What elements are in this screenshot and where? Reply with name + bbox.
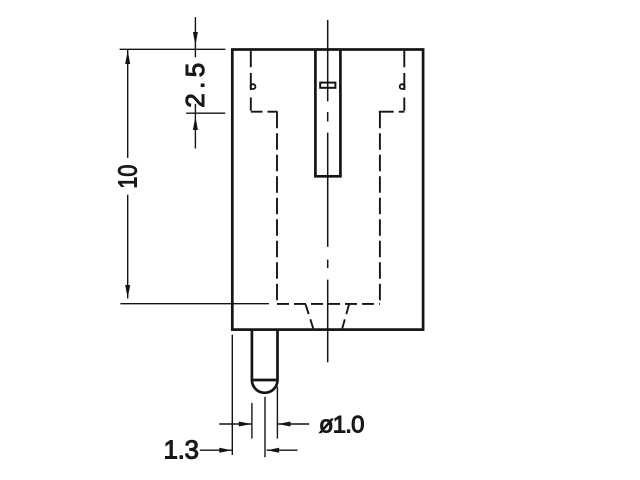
- hidden funnel right slant: [342, 305, 349, 329]
- dim 10 arrow up: [125, 51, 130, 65]
- svg-text:1.3: 1.3: [164, 434, 200, 464]
- pin right edge: [276, 330, 279, 380]
- dim dia1.0 arrow left-pointing: [278, 422, 291, 427]
- dim dia1.0 leader left: [219, 423, 251, 425]
- dim 10 extension line top: [120, 48, 226, 50]
- dim 1.3 arrow left-pointing: [267, 448, 280, 453]
- hidden cavity right step: [379, 111, 405, 113]
- small circle detail right: [400, 84, 405, 89]
- hidden cavity left step: [251, 111, 278, 113]
- pin left edge: [251, 330, 254, 380]
- center line: [327, 20, 329, 362]
- pin chord: [252, 379, 278, 382]
- slot right edge: [339, 50, 342, 177]
- body outline: [232, 50, 423, 330]
- hidden cavity left outer wall: [250, 51, 252, 111]
- slot left edge: [314, 50, 317, 177]
- svg-text:10: 10: [112, 165, 142, 189]
- dim 2.5 arrow down: [193, 32, 198, 46]
- svg-text:ø1.0: ø1.0: [319, 411, 364, 438]
- dim 1.3 extension line right (pin center): [264, 397, 266, 458]
- dim 10 extension line bottom: [120, 303, 269, 305]
- dim 2.5 arrow up: [193, 117, 198, 131]
- slot bottom edge: [314, 175, 342, 178]
- dim 1.3 arrow right-pointing: [219, 448, 232, 453]
- dim dia1.0 extension line left: [251, 403, 253, 439]
- dim 1.3 extension line left (body edge): [231, 335, 233, 455]
- dim 2.5 dimension line upper: [194, 17, 196, 57]
- hidden cavity left inner wall: [276, 112, 278, 304]
- hidden cavity right outer wall: [403, 51, 405, 111]
- hidden cavity bottom: [277, 303, 380, 305]
- dim 1.3 leader left: [200, 449, 232, 451]
- hidden funnel left slant: [306, 305, 314, 329]
- dim 2.5 extension line bottom: [186, 112, 225, 114]
- dim 2.5 dimension line lower: [194, 104, 196, 149]
- dim dia1.0 leader right: [278, 423, 309, 425]
- small circle detail left: [251, 84, 256, 89]
- pin dome arc: [252, 380, 278, 393]
- dim dia1.0 arrow right-pointing: [239, 422, 252, 427]
- dim 1.3 leader right: [267, 449, 298, 451]
- hidden cavity right inner wall: [379, 112, 381, 304]
- svg-text:2.5: 2.5: [180, 63, 210, 108]
- dim dia1.0 extension line right: [276, 387, 278, 439]
- dim 10 dimension line: [127, 49, 129, 158]
- dim 10 arrow down: [125, 285, 130, 299]
- small rectangle feature: [320, 83, 335, 88]
